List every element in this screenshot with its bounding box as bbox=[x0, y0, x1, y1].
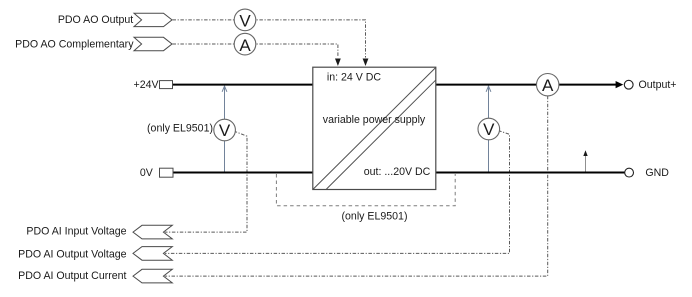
svg-text:variable power supply: variable power supply bbox=[323, 114, 426, 126]
measurement line left voltmeter (0V to +24V) bbox=[224, 87, 226, 173]
svg-text:out: ...20V DC: out: ...20V DC bbox=[364, 166, 431, 178]
arrow into supply top (from V meter line) bbox=[363, 59, 369, 67]
svg-text:V: V bbox=[239, 12, 251, 31]
meter V (PDO AO Output) bbox=[234, 9, 256, 31]
arrowhead right voltmeter line bbox=[486, 86, 491, 92]
svg-text:GND: GND bbox=[645, 167, 669, 179]
wire PDO AI Input Voltage (dash-dot from left voltmeter) bbox=[165, 131, 247, 232]
arrowhead left voltmeter line bbox=[222, 86, 227, 92]
arrow into supply top (from A meter line) bbox=[335, 59, 341, 67]
power supply diagonal stroke 2 bbox=[326, 80, 435, 189]
svg-text:A: A bbox=[542, 76, 554, 95]
svg-text:(only EL9501): (only EL9501) bbox=[147, 123, 213, 135]
terminal square +24V bbox=[160, 81, 173, 89]
wire +24V output segment to Output+ bbox=[435, 84, 618, 86]
svg-text:PDO AO Complementary: PDO AO Complementary bbox=[15, 39, 134, 51]
node Output+ terminal circle bbox=[624, 80, 633, 89]
wire 0V output segment to GND bbox=[435, 172, 625, 174]
svg-text:V: V bbox=[219, 121, 231, 140]
chevron tag PDO AI Output Current bbox=[133, 269, 172, 283]
svg-text:in: 24 V DC: in: 24 V DC bbox=[327, 72, 382, 84]
wire PDO AO Output signal (dash-dot to V meter, down into supply) bbox=[173, 20, 366, 58]
chevron tag PDO AI Output Voltage bbox=[133, 247, 172, 261]
meter V output voltage (right) bbox=[478, 118, 500, 140]
wire +24V left segment bbox=[173, 84, 315, 86]
chevron tag PDO AO Output bbox=[134, 13, 172, 26]
measurement line right voltmeter (0V to +24V) bbox=[488, 87, 490, 173]
svg-text:(only EL9501): (only EL9501) bbox=[342, 210, 408, 222]
svg-text:A: A bbox=[239, 36, 251, 55]
svg-text:+24V: +24V bbox=[134, 79, 160, 91]
wire PDO AO Complementary signal (dash-dot to A meter, down into supply) bbox=[173, 44, 338, 58]
meter A output current A2 bbox=[537, 74, 559, 96]
meter A (PDO AO Complementary) bbox=[234, 33, 256, 55]
meter V input voltage (left) bbox=[214, 119, 236, 141]
chevron tag PDO AI Input Voltage bbox=[133, 225, 172, 239]
chevron tag PDO AO Complementary bbox=[134, 37, 172, 50]
power supply U1 box bbox=[313, 67, 436, 189]
svg-text:PDO AO Output: PDO AO Output bbox=[58, 14, 133, 26]
wire PDO AI Output Voltage (dash-dot from right voltmeter) bbox=[165, 131, 510, 254]
terminal square 0V bbox=[160, 168, 174, 177]
svg-text:0V: 0V bbox=[140, 167, 154, 179]
power supply diagonal stroke 1 bbox=[313, 68, 435, 190]
wire PDO AI Output Current (dash-dot from ammeter A2) bbox=[165, 96, 548, 276]
svg-text:Output+: Output+ bbox=[639, 79, 677, 91]
wire 0V left segment bbox=[173, 172, 314, 174]
arrowhead at Output+ bbox=[616, 81, 624, 88]
dashed bracket (only EL9501) around output side bbox=[276, 174, 455, 206]
svg-text:PDO AI Input Voltage: PDO AI Input Voltage bbox=[26, 226, 126, 238]
svg-text:PDO AI Output Current: PDO AI Output Current bbox=[18, 270, 126, 282]
current direction arrow on 0V line near GND bbox=[585, 156, 587, 172]
node GND terminal circle bbox=[625, 168, 634, 177]
svg-text:PDO AI Output Voltage: PDO AI Output Voltage bbox=[18, 249, 126, 261]
svg-text:V: V bbox=[483, 120, 495, 139]
